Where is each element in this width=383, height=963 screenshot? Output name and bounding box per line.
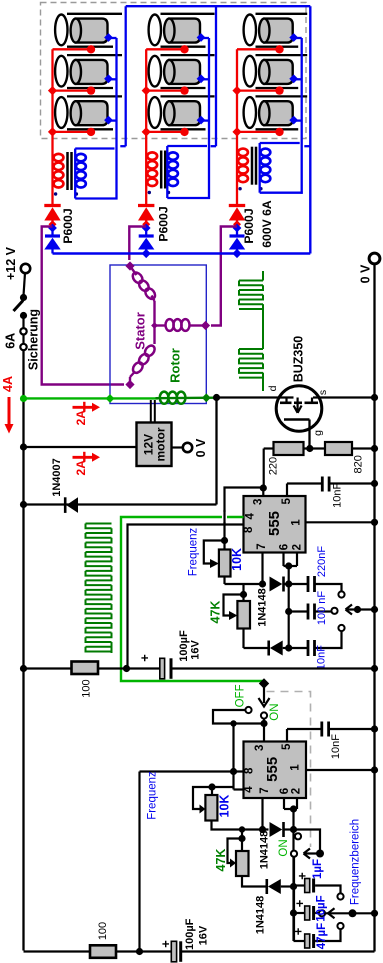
svg-text:+: + (137, 654, 152, 662)
svg-text:Sicherung: Sicherung (27, 309, 41, 370)
svg-text:+: + (291, 927, 306, 935)
svg-text:47K: 47K (214, 849, 228, 872)
svg-text:4A: 4A (1, 376, 15, 392)
svg-text:10nF: 10nF (330, 734, 342, 759)
svg-text:6: 6 (279, 544, 291, 550)
svg-text:Stator: Stator (133, 312, 148, 350)
svg-text:+12 V: +12 V (4, 246, 18, 280)
svg-text:0 V: 0 V (359, 264, 373, 283)
svg-text:100µF: 100µF (178, 630, 190, 662)
svg-text:motor: motor (154, 427, 168, 461)
svg-text:8: 8 (244, 767, 256, 774)
svg-text:220: 220 (267, 457, 279, 475)
svg-text:2: 2 (291, 788, 303, 794)
svg-text:10µF: 10µF (316, 895, 328, 921)
svg-text:g: g (312, 430, 324, 436)
svg-text:7: 7 (259, 787, 271, 793)
svg-text:5: 5 (281, 743, 293, 750)
svg-text:1µF: 1µF (312, 859, 324, 879)
svg-text:BUZ350: BUZ350 (292, 336, 306, 383)
svg-text:2: 2 (291, 544, 303, 550)
svg-text:6: 6 (279, 788, 291, 794)
svg-text:4: 4 (243, 786, 255, 793)
svg-text:220nF: 220nF (316, 546, 328, 577)
svg-text:4: 4 (245, 513, 257, 520)
svg-text:555: 555 (264, 757, 281, 782)
svg-text:OFF: OFF (234, 684, 246, 707)
svg-text:8: 8 (243, 526, 255, 533)
svg-text:100µF: 100µF (184, 918, 196, 950)
svg-text:1N4148: 1N4148 (256, 588, 268, 627)
svg-text:10nF: 10nF (315, 645, 327, 670)
svg-text:2A: 2A (74, 460, 88, 476)
svg-text:3: 3 (253, 499, 265, 505)
svg-text:+: + (295, 872, 310, 880)
svg-text:100: 100 (97, 922, 109, 940)
svg-text:600V 6A: 600V 6A (260, 200, 274, 248)
svg-text:+: + (292, 899, 307, 907)
svg-text:10K: 10K (230, 548, 244, 571)
svg-text:s: s (317, 390, 329, 395)
svg-text:555: 555 (266, 511, 283, 536)
svg-text:16V: 16V (190, 640, 202, 660)
svg-text:ON: ON (278, 839, 290, 856)
svg-text:1N4148: 1N4148 (259, 831, 271, 870)
svg-text:P600J: P600J (61, 208, 75, 243)
svg-text:+: + (158, 940, 173, 948)
svg-text:16V: 16V (197, 925, 209, 945)
svg-text:Frequenzbereich: Frequenzbereich (350, 819, 362, 905)
svg-text:2A: 2A (74, 410, 88, 426)
svg-text:10K: 10K (218, 795, 232, 818)
svg-text:1: 1 (290, 764, 302, 771)
svg-text:47µF: 47µF (316, 923, 328, 949)
svg-text:100 nF: 100 nF (316, 591, 328, 626)
svg-text:100: 100 (81, 679, 93, 697)
svg-text:1N4148: 1N4148 (255, 896, 267, 935)
svg-text:5: 5 (281, 498, 293, 505)
svg-text:6A: 6A (4, 333, 18, 349)
svg-text:Frequenz: Frequenz (188, 527, 200, 576)
svg-text:P600J: P600J (242, 208, 256, 243)
svg-text:10nF: 10nF (332, 482, 344, 507)
svg-text:d: d (267, 385, 279, 391)
svg-text:820: 820 (353, 455, 365, 473)
svg-text:47K: 47K (209, 601, 223, 624)
svg-text:ON: ON (269, 703, 281, 720)
svg-text:Frequenz: Frequenz (147, 771, 159, 820)
svg-text:1N4007: 1N4007 (51, 458, 63, 497)
svg-text:Rotor: Rotor (168, 348, 183, 383)
svg-text:3: 3 (254, 745, 266, 751)
svg-text:0 V: 0 V (194, 438, 208, 457)
svg-text:7: 7 (256, 543, 268, 549)
svg-text:P600J: P600J (157, 206, 171, 241)
svg-text:1: 1 (290, 519, 302, 526)
